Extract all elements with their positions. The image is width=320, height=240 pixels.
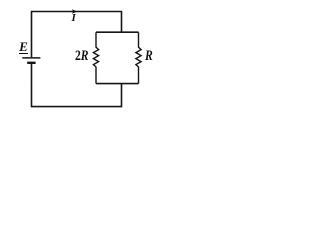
wire bottom loop: right stem lower + bottom wire + left wire lower [32,63,122,106]
battery E: short thick plate [27,62,35,64]
current arrow on top wire [72,9,78,14]
resistor R (right branch zigzag) [136,32,141,83]
label I [69,12,79,24]
label E (underlined) [19,41,28,54]
battery E: long plate [22,57,40,59]
label 2R [75,48,89,65]
wire top-left loop: left wire upper + top wire + right stem upper [32,12,122,58]
node top junction: box top edge [96,31,139,33]
label R [145,48,153,65]
node bottom junction: box bottom edge [96,83,139,85]
resistor 2R (left branch zigzag) [93,32,98,83]
